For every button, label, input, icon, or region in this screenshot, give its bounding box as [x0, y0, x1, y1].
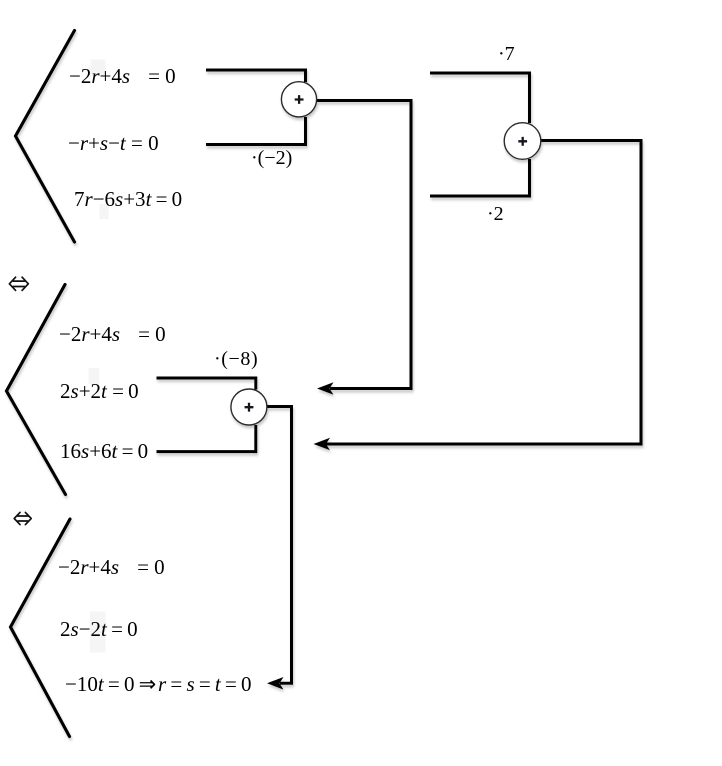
arrowhead 3 [267, 677, 284, 690]
label times 2 [487, 204, 504, 224]
equation 16s+6t=0 system 2 [60, 441, 148, 461]
adder circle 2 [504, 123, 541, 160]
equation 2s+2t=0 system 2 [60, 381, 139, 401]
equation -r+s-t=0 system 1 [68, 133, 159, 153]
equation -2r+4s=0 system 2 [59, 324, 166, 344]
pale highlight band eq3 system1 [100, 204, 109, 219]
label times (-8) [214, 349, 258, 369]
brace system 3 [11, 519, 71, 737]
equation 2s-2t=0 system 3 [60, 619, 138, 639]
plus sign adder 2 [518, 137, 527, 146]
wire eq1*7 into adder 2 [430, 73, 530, 123]
equation -2r+4s=0 system 1 [69, 66, 176, 86]
wire eq3*2 into adder 2 [430, 159, 530, 196]
wire out of adder 3 down to arrow 3 [267, 407, 292, 684]
equation -2r+4s=0 system 3 [58, 557, 165, 577]
adder circle 3 [231, 389, 267, 425]
equivalence arrow 1 [9, 277, 28, 290]
label times 7 [498, 44, 515, 64]
pale highlight band eq2 system2 [89, 368, 100, 384]
wire from eq2 system2 into adder 3 [157, 378, 256, 390]
plus sign adder 3 [245, 403, 254, 412]
equivalence arrow 2 [14, 512, 31, 524]
pale highlight band eq1 system1 [91, 60, 106, 76]
plus sign adder 1 [295, 95, 304, 104]
wire from eq1 system1 into adder 1 [206, 70, 306, 82]
brace system 2 [7, 285, 66, 495]
equation -10t=0 implies r=s=t=0 system 3 [65, 674, 252, 694]
brace system 1 [16, 31, 75, 243]
arrowhead 1 [317, 382, 334, 395]
pale highlight band eq2 system3 [90, 612, 106, 653]
adder circle 1 [281, 82, 316, 117]
equation 7r-6s+3t=0 system 1 [74, 189, 182, 209]
wire out of adder 1 down to arrow 1 [317, 101, 411, 389]
wire from eq2 system1 into adder 1 [206, 117, 306, 145]
wire out of adder 2 down to arrow 2 [326, 141, 641, 445]
arrowhead 2 [314, 438, 331, 451]
label times (-2) [251, 148, 292, 168]
wire from eq3 system2 into adder 3 [157, 425, 256, 452]
